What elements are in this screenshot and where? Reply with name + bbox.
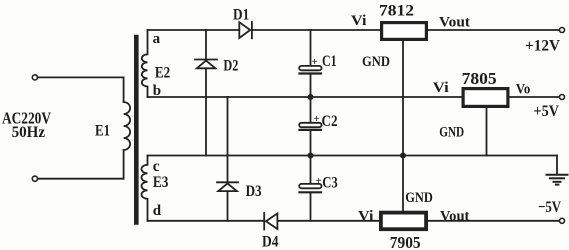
wire: d-line to 7905	[277, 220, 380, 222]
svg-text:Vo: Vo	[516, 82, 530, 98]
diode D3 (with leads)	[227, 97, 229, 182]
capacitor C3	[299, 184, 321, 188]
svg-text:Vi: Vi	[351, 13, 366, 29]
terminal +5V	[560, 95, 565, 100]
wire: ground rail	[148, 155, 558, 157]
wire: 7805 GND lead	[486, 108, 488, 156]
ground symbol	[556, 156, 558, 174]
svg-text:C1: C1	[322, 53, 337, 70]
svg-text:C3: C3	[322, 174, 338, 191]
wire	[310, 193, 312, 221]
svg-text:+12V: +12V	[525, 37, 560, 54]
svg-text:c: c	[153, 158, 160, 175]
svg-text:GND: GND	[362, 54, 390, 70]
svg-text:D4: D4	[262, 234, 279, 250]
junction dot gnd leads	[400, 153, 406, 159]
wire	[310, 131, 312, 184]
wire: 7905 GND lead	[402, 156, 404, 212]
winding E3 (secondary bottom)	[142, 156, 148, 221]
wire: d-line	[148, 220, 265, 222]
wire: -5V output	[426, 220, 559, 222]
svg-text:Vout: Vout	[440, 208, 469, 224]
junction dot ground rail	[308, 153, 314, 159]
terminal: AC input bottom	[32, 176, 37, 181]
diode D2 (with leads)	[205, 30, 207, 60]
wire: capacitor column top	[310, 30, 312, 66]
svg-text:C2: C2	[322, 113, 338, 130]
diode D1	[239, 22, 250, 38]
svg-text:−5V: −5V	[538, 199, 561, 216]
svg-text:50Hz: 50Hz	[12, 124, 46, 141]
regulator U1 7812	[382, 23, 427, 40]
winding E2 (secondary top)	[142, 30, 148, 97]
svg-text:a: a	[153, 31, 161, 47]
svg-text:b: b	[153, 83, 161, 99]
wire: primary top vertical	[123, 77, 125, 102]
terminal: AC input top	[32, 75, 37, 80]
svg-text:D1: D1	[233, 6, 249, 23]
transformer core	[134, 37, 139, 223]
terminal +12V	[560, 28, 565, 33]
terminal -5V	[560, 218, 565, 223]
regulator U2 7805	[463, 89, 508, 107]
svg-text:Vout: Vout	[439, 15, 470, 31]
capacitor C2	[299, 123, 321, 127]
svg-text:+: +	[316, 175, 322, 187]
wire: a-line to 7812	[252, 29, 380, 31]
svg-text:7905: 7905	[390, 233, 421, 250]
svg-text:Vi: Vi	[358, 208, 374, 224]
wire: +12V output	[428, 29, 559, 31]
diode D4	[263, 213, 265, 230]
svg-text:Vi: Vi	[433, 80, 449, 96]
svg-text:+: +	[312, 56, 318, 68]
winding E1 (primary coil)	[124, 102, 131, 150]
svg-text:E2: E2	[155, 65, 170, 82]
svg-text:D2: D2	[223, 58, 238, 75]
junction dot b-line	[308, 94, 314, 100]
svg-text:+5V: +5V	[534, 103, 560, 120]
svg-text:D3: D3	[246, 183, 262, 200]
wire: primary bottom vertical	[123, 150, 125, 179]
wire	[310, 75, 312, 123]
svg-text:E3: E3	[153, 174, 169, 191]
svg-text:GND: GND	[405, 190, 433, 206]
svg-text:7805: 7805	[462, 69, 497, 88]
regulator U3 7905	[381, 213, 426, 230]
capacitor C1	[299, 66, 321, 70]
svg-text:d: d	[153, 203, 162, 219]
svg-text:GND: GND	[439, 125, 464, 141]
wire: bottom primary lead	[38, 178, 124, 180]
wire: a-line	[148, 29, 240, 31]
wire: +5V output	[510, 96, 560, 98]
svg-text:7812: 7812	[379, 1, 414, 19]
wire: 7812 GND lead	[402, 41, 404, 156]
svg-text:E1: E1	[95, 122, 110, 139]
wire: top primary lead	[38, 76, 124, 78]
wire: b-line	[148, 96, 462, 98]
svg-text:+: +	[314, 113, 320, 125]
